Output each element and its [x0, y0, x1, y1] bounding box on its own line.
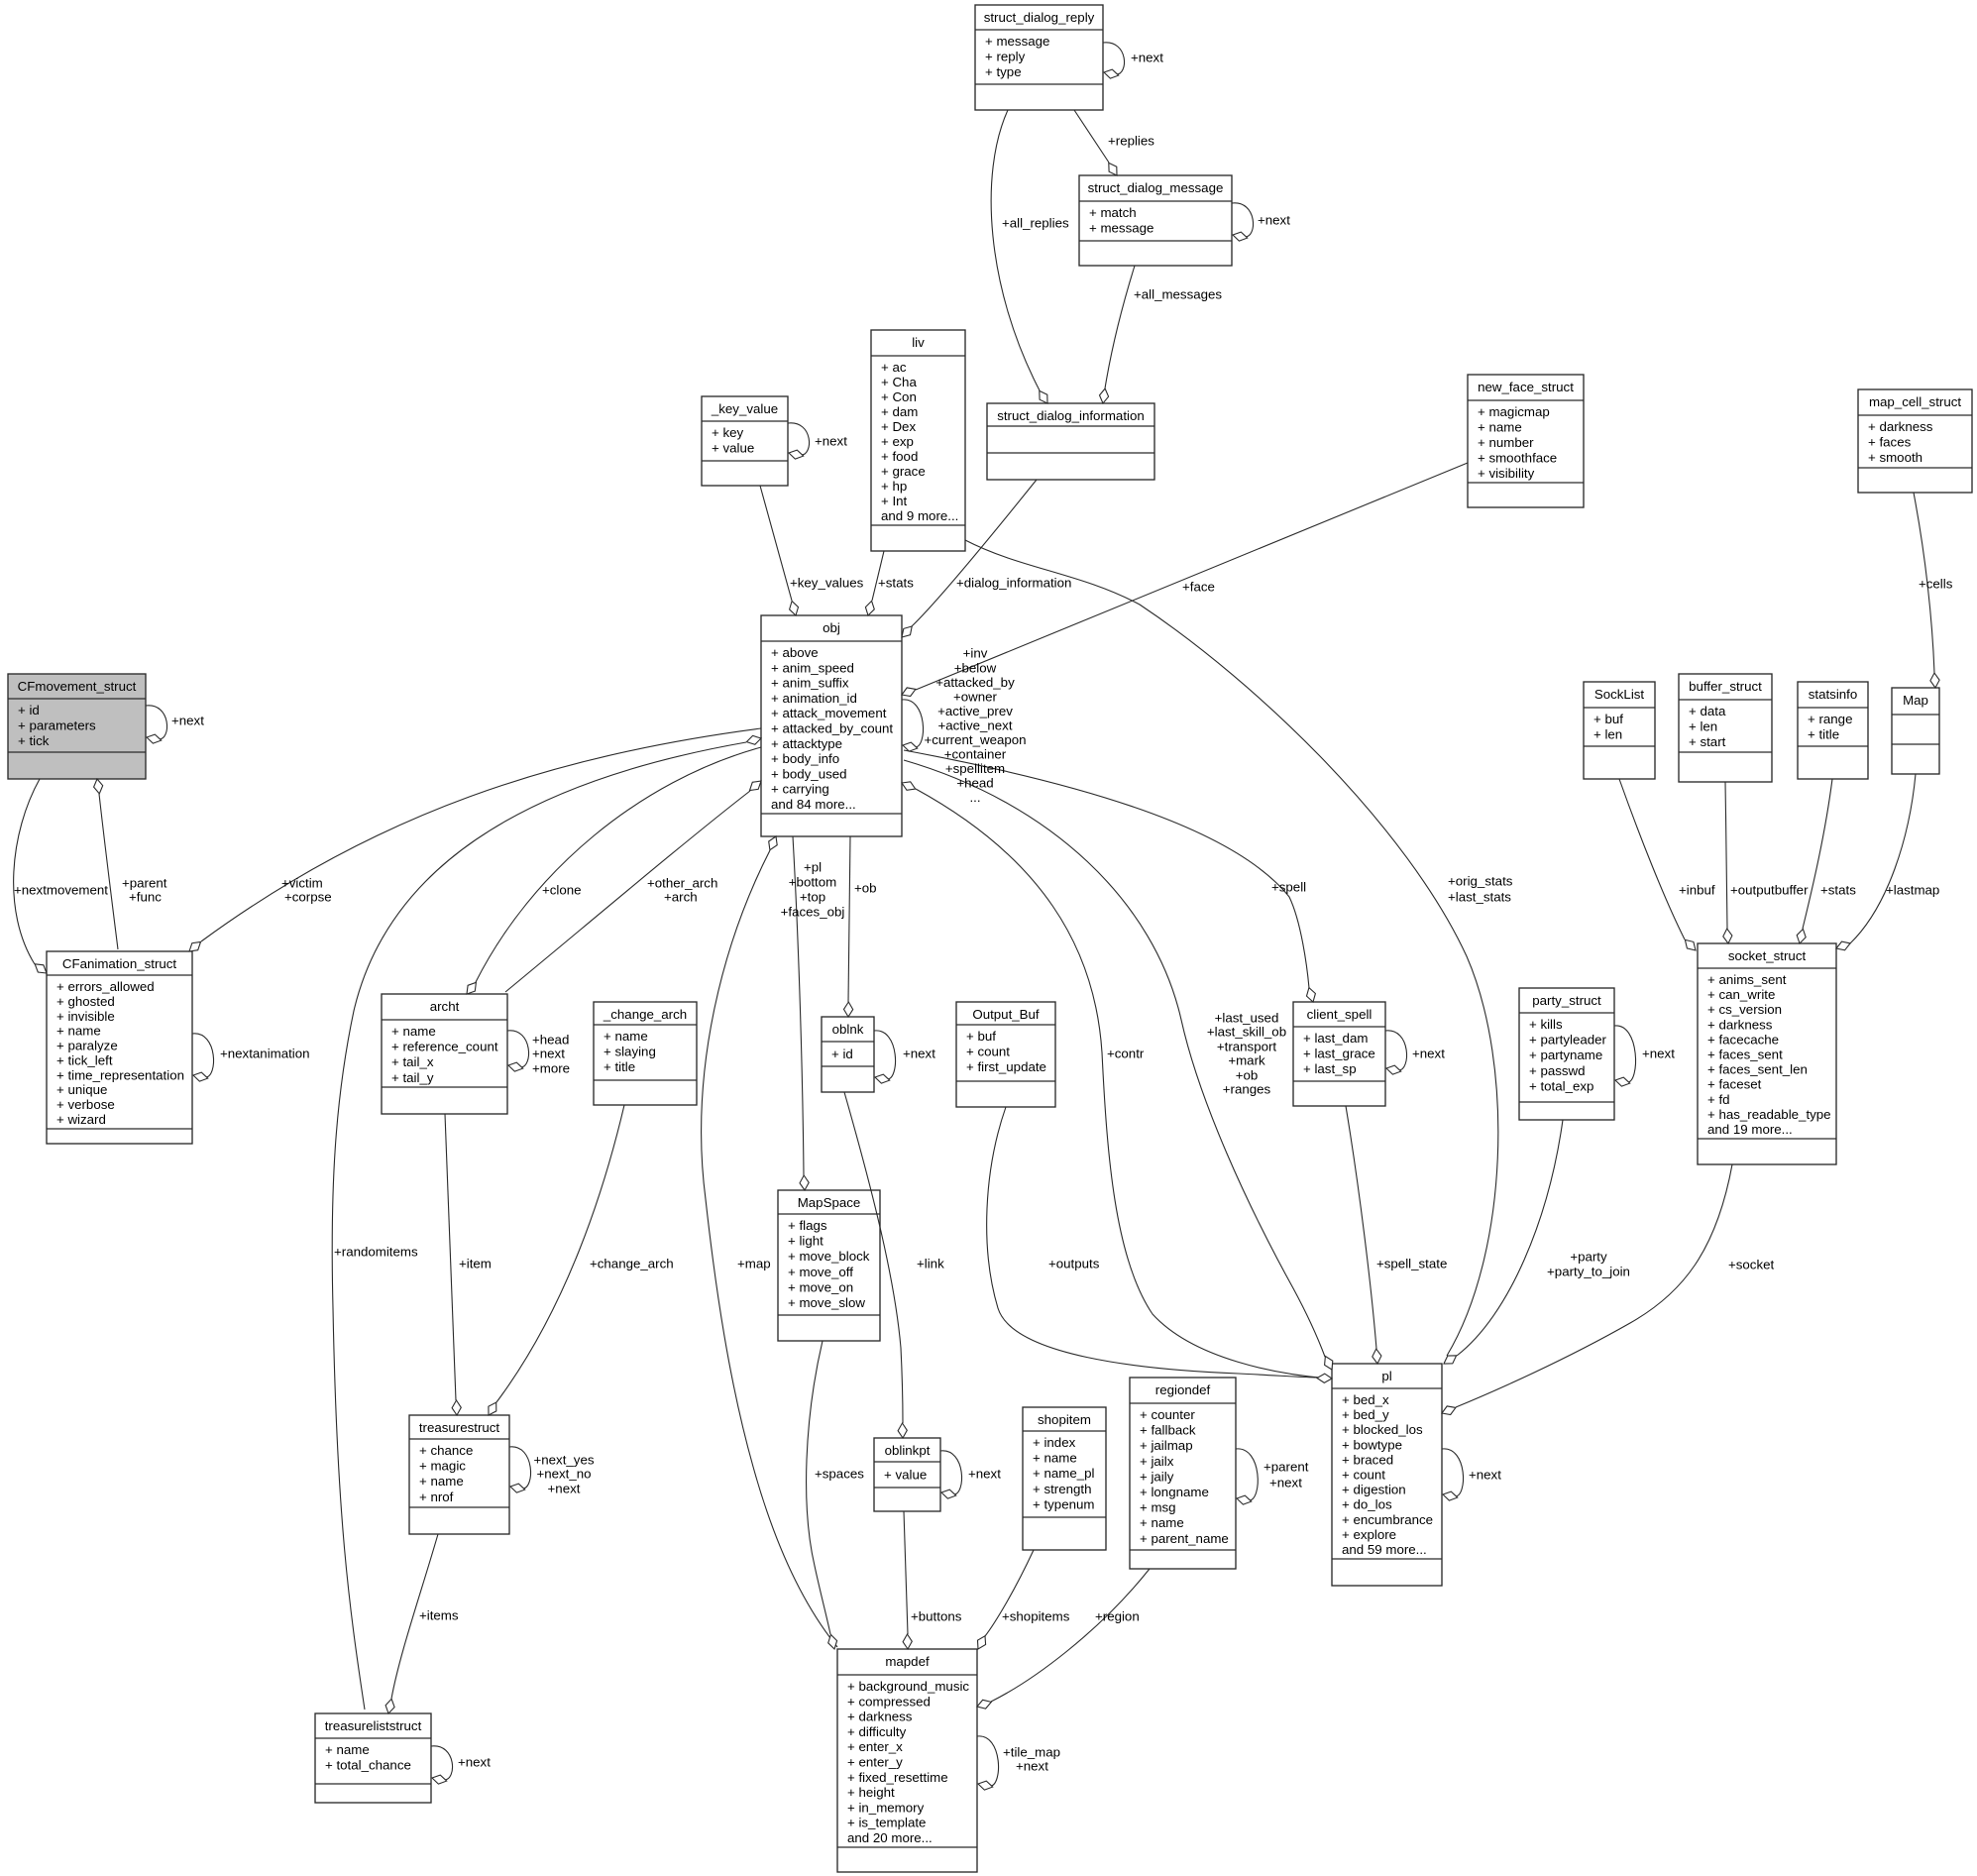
svg-text:+last_skill_ob: +last_skill_ob: [1207, 1025, 1286, 1040]
svg-text:+ unique: + unique: [56, 1082, 107, 1097]
edge liv->pl +orig_stats +last_stats: [965, 540, 1513, 1356]
svg-text:+ attack_movement: + attack_movement: [771, 706, 887, 720]
self loop client_spell +next: [1385, 1031, 1445, 1074]
svg-text:and 20 more...: and 20 more...: [847, 1830, 933, 1845]
svg-text:+ magic: + magic: [419, 1459, 466, 1474]
svg-text:+ count: + count: [966, 1045, 1010, 1059]
class shopitem: [1023, 1407, 1106, 1550]
svg-text:+buttons: +buttons: [911, 1609, 962, 1624]
svg-text:+ food: + food: [881, 449, 918, 464]
svg-text:+ jaily: + jaily: [1140, 1469, 1174, 1484]
svg-text:+lastmap: +lastmap: [1886, 883, 1939, 898]
svg-text:+ wizard: + wizard: [56, 1112, 106, 1127]
svg-text:+ faces_sent: + faces_sent: [1707, 1048, 1783, 1062]
svg-text:struct_dialog_message: struct_dialog_message: [1088, 180, 1224, 195]
svg-text:+ height: + height: [847, 1785, 895, 1800]
svg-text:+party: +party: [1570, 1250, 1607, 1265]
svg-text:+spaces: +spaces: [815, 1467, 864, 1482]
svg-text:+transport: +transport: [1217, 1040, 1277, 1054]
svg-text:+cells: +cells: [1919, 577, 1953, 592]
edge obj->client_spell +spell: [904, 750, 1315, 1002]
svg-text:+ bed_y: + bed_y: [1342, 1407, 1389, 1422]
svg-text:+ slaying: + slaying: [604, 1045, 656, 1059]
svg-text:+spellitem: +spellitem: [945, 761, 1005, 776]
self loop mapdef +tile_map +next: [977, 1736, 1060, 1790]
svg-text:+socket: +socket: [1728, 1258, 1775, 1272]
svg-text:+ name: + name: [419, 1474, 464, 1489]
class archt: [382, 994, 507, 1114]
svg-text:+ ghosted: + ghosted: [56, 994, 115, 1009]
svg-text:+ fallback: + fallback: [1140, 1423, 1196, 1438]
svg-text:+ name: + name: [1140, 1515, 1184, 1530]
svg-text:+ tail_y: + tail_y: [391, 1070, 434, 1085]
svg-text:map_cell_struct: map_cell_struct: [1869, 394, 1961, 409]
svg-text:+ Int: + Int: [881, 494, 908, 508]
svg-text:+ number: + number: [1478, 435, 1534, 450]
svg-text:+next: +next: [1469, 1468, 1501, 1483]
svg-text:+ total_chance: + total_chance: [325, 1758, 411, 1773]
svg-text:+next: +next: [968, 1467, 1001, 1482]
svg-text:+ passwd: + passwd: [1529, 1063, 1586, 1078]
edge MapSpace->obj +pl +bottom +top +faces_obj: [781, 836, 845, 1190]
svg-text:+randomitems: +randomitems: [334, 1245, 418, 1260]
svg-text:+item: +item: [459, 1257, 492, 1271]
edge oblinkpt->mapdef +buttons: [903, 1511, 962, 1649]
self loop archt +head +next +more: [507, 1031, 570, 1076]
svg-text:+ anim_suffix: + anim_suffix: [771, 676, 849, 691]
svg-text:+ anim_speed: + anim_speed: [771, 660, 854, 675]
svg-text:+mark: +mark: [1228, 1053, 1265, 1068]
svg-text:+ blocked_los: + blocked_los: [1342, 1422, 1423, 1437]
svg-text:shopitem: shopitem: [1038, 1412, 1091, 1427]
svg-text:+faces_obj: +faces_obj: [781, 905, 845, 920]
svg-text:+key_values: +key_values: [790, 576, 864, 591]
class socket_struct: [1698, 943, 1836, 1164]
svg-text:and 19 more...: and 19 more...: [1707, 1122, 1793, 1137]
svg-text:+next_no: +next_no: [536, 1467, 591, 1482]
svg-text:+ Con: + Con: [881, 389, 917, 404]
class map_cell_struct: [1858, 389, 1972, 493]
svg-text:+bottom: +bottom: [789, 875, 836, 890]
svg-text:+ name: + name: [1033, 1451, 1077, 1466]
svg-text:and 9 more...: and 9 more...: [881, 508, 958, 523]
svg-text:+next: +next: [171, 714, 204, 728]
edge map_cell_struct->Map +cells: [1914, 493, 1953, 688]
svg-text:+ data: + data: [1689, 704, 1726, 718]
self loop _key_value +next: [788, 423, 847, 459]
svg-text:+ time_representation: + time_representation: [56, 1067, 184, 1082]
edge obj->treasureliststruct +randomitems: [332, 735, 761, 1710]
svg-text:+ paralyze: + paralyze: [56, 1039, 118, 1053]
svg-text:+ bed_x: + bed_x: [1342, 1392, 1389, 1407]
svg-text:+shopitems: +shopitems: [1002, 1609, 1070, 1624]
svg-text:oblnk: oblnk: [832, 1022, 864, 1037]
svg-text:+more: +more: [532, 1061, 570, 1076]
edge new_face_struct->obj +face: [902, 463, 1468, 697]
svg-text:regiondef: regiondef: [1155, 1382, 1211, 1397]
svg-text:+next: +next: [1642, 1047, 1675, 1061]
svg-text:+ visibility: + visibility: [1478, 466, 1535, 481]
svg-text:client_spell: client_spell: [1307, 1007, 1373, 1022]
edge Map->socket_struct +lastmap: [1836, 774, 1939, 950]
svg-text:+ difficulty: + difficulty: [847, 1724, 907, 1739]
svg-text:+ chance: + chance: [419, 1443, 473, 1458]
edge struct_dialog_information->obj +dialog_information: [902, 480, 1071, 637]
svg-text:+ tick: + tick: [18, 733, 50, 748]
svg-text:+ darkness: + darkness: [847, 1710, 913, 1724]
svg-text:+ attacked_by_count: + attacked_by_count: [771, 721, 893, 736]
svg-text:+ len: + len: [1689, 719, 1717, 734]
svg-text:+ longname: + longname: [1140, 1485, 1209, 1499]
svg-text:+ buf: + buf: [966, 1029, 996, 1044]
edge obj->archt +other_arch +arch: [505, 781, 761, 992]
svg-text:+ count: + count: [1342, 1468, 1385, 1483]
edge struct_dialog_reply->struct_dialog_message +replies: [1074, 110, 1154, 175]
class CFanimation_struct: [47, 951, 192, 1144]
self loop regiondef +parent +next: [1236, 1449, 1309, 1504]
svg-text:treasureliststruct: treasureliststruct: [325, 1718, 422, 1733]
svg-text:mapdef: mapdef: [885, 1654, 930, 1669]
svg-text:+next: +next: [548, 1482, 581, 1496]
svg-text:+ name: + name: [56, 1024, 101, 1039]
svg-text:+ jailmap: + jailmap: [1140, 1438, 1193, 1453]
svg-text:+ partyleader: + partyleader: [1529, 1033, 1607, 1048]
svg-text:+inbuf: +inbuf: [1679, 883, 1715, 898]
svg-text:+ title: + title: [1808, 727, 1839, 742]
edge shopitem->mapdef +shopitems: [978, 1550, 1070, 1649]
svg-text:+ parent_name: + parent_name: [1140, 1531, 1229, 1546]
class MapSpace: [778, 1190, 880, 1341]
svg-text:+ob: +ob: [1236, 1068, 1259, 1083]
svg-text:+ id: + id: [18, 703, 40, 717]
svg-text:+ explore: + explore: [1342, 1527, 1396, 1542]
edge _key_value->obj +key_values: [760, 486, 864, 615]
svg-text:+ body_used: + body_used: [771, 766, 847, 781]
svg-text:+ last_grace: + last_grace: [1303, 1047, 1375, 1061]
edge CFmovement_struct->CFanimation_struct +nextmovement: [14, 779, 109, 973]
svg-text:+ fixed_resettime: + fixed_resettime: [847, 1770, 948, 1785]
edge obj->archt +clone: [467, 747, 761, 994]
self loop oblnk +next: [874, 1031, 935, 1083]
self loop obj +inv +below +attacked_by +owner +active_prev +active_next +current_weapon +container +spellitem +head ...: [902, 646, 1027, 806]
svg-text:CFanimation_struct: CFanimation_struct: [62, 956, 177, 971]
svg-text:Output_Buf: Output_Buf: [972, 1007, 1040, 1022]
svg-text:+tile_map: +tile_map: [1003, 1745, 1060, 1760]
svg-text:+ carrying: + carrying: [771, 782, 829, 797]
svg-text:+ob: +ob: [854, 881, 877, 896]
svg-text:treasurestruct: treasurestruct: [419, 1420, 500, 1435]
svg-text:socket_struct: socket_struct: [1728, 948, 1807, 963]
svg-text:+inv: +inv: [963, 646, 988, 661]
svg-text:+next: +next: [1131, 51, 1163, 65]
edge MapSpace->mapdef +spaces: [807, 1341, 865, 1649]
edge pl->obj +last_used +last_skill_ob +transport +mark +ob +ranges: [904, 760, 1333, 1370]
svg-text:+ reference_count: + reference_count: [391, 1040, 498, 1054]
svg-text:+party_to_join: +party_to_join: [1547, 1265, 1630, 1279]
class struct_dialog_information: [987, 403, 1154, 480]
svg-text:+all_replies: +all_replies: [1002, 216, 1069, 231]
svg-text:+parent: +parent: [122, 876, 167, 891]
edge client_spell->pl +spell_state: [1346, 1106, 1447, 1364]
svg-text:+ has_readable_type: + has_readable_type: [1707, 1107, 1831, 1122]
svg-text:+clone: +clone: [542, 883, 582, 898]
svg-text:+ dam: + dam: [881, 404, 918, 419]
svg-text:+ darkness: + darkness: [1707, 1017, 1773, 1032]
svg-text:oblinkpt: oblinkpt: [885, 1443, 931, 1458]
svg-text:+ animation_id: + animation_id: [771, 691, 857, 706]
svg-text:+ enter_y: + enter_y: [847, 1755, 903, 1770]
svg-text:+ move_block: + move_block: [788, 1249, 870, 1264]
svg-text:+ value: + value: [712, 441, 754, 456]
svg-text:buffer_struct: buffer_struct: [1689, 679, 1762, 694]
svg-text:+head: +head: [956, 776, 993, 791]
svg-text:+last_used: +last_used: [1215, 1011, 1279, 1026]
class treasureliststruct: [315, 1713, 431, 1803]
class obj: [761, 615, 902, 836]
svg-text:+parent: +parent: [1263, 1460, 1309, 1475]
svg-text:+ faces: + faces: [1868, 435, 1912, 450]
svg-text:+ ac: + ac: [881, 360, 907, 375]
svg-text:+items: +items: [419, 1608, 459, 1623]
edge treasurestruct->treasureliststruct +items: [385, 1534, 459, 1713]
svg-text:+ hp: + hp: [881, 479, 907, 494]
svg-text:+container: +container: [944, 747, 1007, 762]
svg-text:+ partyname: + partyname: [1529, 1048, 1602, 1062]
svg-text:+ match: + match: [1089, 205, 1137, 220]
svg-text:+arch: +arch: [664, 890, 698, 905]
svg-text:+ Cha: + Cha: [881, 375, 917, 389]
svg-text:+face: +face: [1182, 580, 1215, 595]
svg-text:+next: +next: [815, 434, 847, 449]
svg-text:+ move_on: + move_on: [788, 1279, 853, 1294]
svg-text:+ darkness: + darkness: [1868, 419, 1933, 434]
svg-text:+ enter_x: + enter_x: [847, 1739, 903, 1754]
class party_struct: [1519, 988, 1614, 1120]
svg-text:+ message: + message: [985, 34, 1049, 49]
svg-text:+current_weapon: +current_weapon: [924, 732, 1026, 747]
svg-text:pl: pl: [1381, 1369, 1391, 1383]
svg-text:+spell: +spell: [1271, 880, 1306, 895]
svg-text:+ move_slow: + move_slow: [788, 1295, 865, 1310]
self loop CFmovement_struct +next: [146, 706, 204, 743]
svg-text:+ body_info: + body_info: [771, 751, 839, 766]
class _key_value: [702, 396, 788, 486]
svg-text:+replies: +replies: [1108, 134, 1154, 149]
svg-text:and 59 more...: and 59 more...: [1342, 1542, 1427, 1557]
svg-text:+ cs_version: + cs_version: [1707, 1002, 1782, 1017]
edge archt->treasurestruct +item: [445, 1114, 492, 1415]
edge buffer_struct->socket_struct +outputbuffer: [1723, 782, 1809, 943]
class pl: [1332, 1364, 1442, 1586]
svg-text:+ anims_sent: + anims_sent: [1707, 972, 1787, 987]
svg-text:+ reply: + reply: [985, 50, 1026, 64]
class struct_dialog_reply: [975, 5, 1103, 110]
edge oblinkpt->oblnk +link: [844, 1092, 944, 1438]
svg-text:+ exp: + exp: [881, 434, 914, 449]
svg-text:+ facecache: + facecache: [1707, 1032, 1779, 1047]
edge statsinfo->socket_struct +stats: [1797, 779, 1856, 943]
svg-text:+ light: + light: [788, 1234, 824, 1249]
svg-text:+ range: + range: [1808, 712, 1852, 726]
svg-text:+nextanimation: +nextanimation: [220, 1047, 310, 1061]
edge obj->CFanimation_struct +victim +corpse: [189, 728, 761, 951]
class mapdef: [837, 1649, 977, 1872]
svg-text:MapSpace: MapSpace: [798, 1195, 861, 1210]
svg-text:+ can_write: + can_write: [1707, 987, 1775, 1002]
class Map: [1892, 688, 1939, 774]
svg-text:+ compressed: + compressed: [847, 1694, 931, 1709]
edge struct_dialog_reply->struct_dialog_information +all_replies: [991, 110, 1069, 403]
svg-text:struct_dialog_information: struct_dialog_information: [997, 408, 1145, 423]
svg-text:+ tick_left: + tick_left: [56, 1052, 113, 1067]
svg-text:+stats: +stats: [878, 576, 914, 591]
svg-text:+stats: +stats: [1820, 883, 1856, 898]
svg-text:_key_value: _key_value: [711, 401, 778, 416]
self loop struct_dialog_message +next: [1232, 203, 1290, 241]
svg-text:+ background_music: + background_music: [847, 1679, 969, 1694]
svg-text:+change_arch: +change_arch: [590, 1257, 674, 1271]
svg-text:+ name: + name: [1478, 420, 1522, 435]
edge obj->mapdef +map: [702, 836, 837, 1647]
class statsinfo: [1798, 682, 1868, 779]
svg-text:+nextmovement: +nextmovement: [14, 883, 108, 898]
class CFmovement_struct: [8, 674, 146, 779]
svg-text:+ value: + value: [884, 1468, 927, 1483]
svg-text:+ key: + key: [712, 425, 744, 440]
svg-text:+ flags: + flags: [788, 1218, 827, 1233]
svg-text:+ index: + index: [1033, 1435, 1076, 1450]
edge SockList->socket_struct +inbuf: [1619, 779, 1715, 950]
svg-text:+outputs: +outputs: [1048, 1257, 1100, 1271]
svg-text:+ is_template: + is_template: [847, 1816, 926, 1830]
edge CFmovement_struct->CFanimation_struct +parent +func: [94, 779, 167, 949]
svg-text:+ magicmap: + magicmap: [1478, 404, 1550, 419]
self loop treasureliststruct +next: [431, 1746, 491, 1784]
svg-text:new_face_struct: new_face_struct: [1478, 380, 1574, 394]
svg-text:+victim: +victim: [281, 876, 323, 891]
svg-text:+ faceset: + faceset: [1707, 1077, 1762, 1092]
svg-text:+ invisible: + invisible: [56, 1009, 115, 1024]
svg-text:+ grace: + grace: [881, 464, 926, 479]
svg-text:+ move_off: + move_off: [788, 1265, 853, 1279]
svg-text:+next: +next: [532, 1047, 565, 1061]
edge socket_struct->pl +socket: [1442, 1164, 1775, 1415]
svg-text:+dialog_information: +dialog_information: [956, 576, 1071, 591]
class _change_arch: [594, 1002, 697, 1105]
svg-text:+ start: + start: [1689, 734, 1726, 749]
svg-text:+region: +region: [1095, 1609, 1140, 1624]
edge liv->obj +stats: [865, 551, 914, 615]
class new_face_struct: [1468, 375, 1584, 507]
svg-text:+ errors_allowed: + errors_allowed: [56, 979, 155, 994]
edge regiondef->mapdef +region: [977, 1569, 1150, 1709]
svg-text:+ verbose: + verbose: [56, 1097, 115, 1112]
svg-text:+ in_memory: + in_memory: [847, 1800, 925, 1815]
svg-text:+ last_dam: + last_dam: [1303, 1031, 1368, 1046]
svg-text:+ encumbrance: + encumbrance: [1342, 1512, 1433, 1527]
svg-text:+active_prev: +active_prev: [937, 704, 1013, 718]
svg-text:statsinfo: statsinfo: [1809, 687, 1858, 702]
edge struct_dialog_message->struct_dialog_information +all_messages: [1100, 266, 1223, 403]
svg-text:+ faces_sent_len: + faces_sent_len: [1707, 1062, 1808, 1077]
class struct_dialog_message: [1079, 175, 1232, 266]
self loop party_struct +next: [1614, 1026, 1675, 1086]
svg-text:+next: +next: [1269, 1476, 1302, 1490]
svg-text:+ counter: + counter: [1140, 1407, 1195, 1422]
svg-text:+ name_pl: + name_pl: [1033, 1466, 1095, 1481]
svg-text:+ strength: + strength: [1033, 1482, 1092, 1496]
svg-text:+ message: + message: [1089, 221, 1153, 236]
class client_spell: [1293, 1002, 1385, 1106]
svg-text:+ bowtype: + bowtype: [1342, 1437, 1402, 1452]
svg-text:+next: +next: [1412, 1047, 1445, 1061]
svg-text:+ above: + above: [771, 645, 819, 660]
svg-text:+ first_update: + first_update: [966, 1059, 1046, 1074]
svg-text:+ do_los: + do_los: [1342, 1497, 1392, 1512]
self loop treasurestruct +next_yes +next_no +next: [509, 1447, 595, 1496]
svg-text:+ title: + title: [604, 1059, 635, 1074]
svg-text:+ kills: + kills: [1529, 1017, 1563, 1032]
svg-text:party_struct: party_struct: [1532, 993, 1601, 1008]
class liv: [871, 330, 965, 551]
svg-text:+spell_state: +spell_state: [1376, 1257, 1447, 1271]
svg-text:Map: Map: [1903, 693, 1928, 708]
svg-text:+owner: +owner: [953, 689, 998, 704]
svg-text:+corpse: +corpse: [284, 890, 332, 905]
svg-text:+next: +next: [1016, 1759, 1048, 1774]
edge oblnk->obj +ob: [844, 836, 877, 1017]
svg-text:+last_stats: +last_stats: [1448, 890, 1511, 905]
edge _change_arch->treasurestruct +change_arch: [489, 1105, 674, 1415]
svg-text:+head: +head: [532, 1033, 569, 1048]
svg-text:+outputbuffer: +outputbuffer: [1730, 883, 1809, 898]
svg-text:+ msg: + msg: [1140, 1500, 1176, 1515]
class regiondef: [1130, 1378, 1236, 1569]
self loop oblinkpt +next: [940, 1451, 1001, 1498]
svg-text:+func: +func: [129, 890, 162, 905]
svg-text:+ tail_x: + tail_x: [391, 1054, 434, 1069]
svg-text:+next: +next: [1258, 213, 1290, 228]
svg-text:+ranges: +ranges: [1223, 1082, 1271, 1097]
edge obj->pl +contr: [902, 782, 1330, 1379]
svg-text:+pl: +pl: [804, 860, 822, 875]
edge Output_Buf->pl +outputs: [987, 1107, 1332, 1382]
class treasurestruct: [409, 1415, 509, 1534]
svg-text:and 84 more...: and 84 more...: [771, 797, 856, 812]
svg-text:...: ...: [969, 790, 980, 805]
svg-text:+ Dex: + Dex: [881, 419, 916, 434]
svg-text:+ id: + id: [831, 1047, 853, 1061]
svg-text:+ jailx: + jailx: [1140, 1454, 1174, 1469]
svg-text:_change_arch: _change_arch: [603, 1007, 687, 1022]
svg-text:+ buf: + buf: [1593, 712, 1623, 726]
class SockList: [1584, 682, 1655, 779]
svg-text:SockList: SockList: [1594, 687, 1645, 702]
svg-text:+ total_exp: + total_exp: [1529, 1078, 1593, 1093]
svg-text:+attacked_by: +attacked_by: [935, 675, 1015, 690]
svg-text:+ name: + name: [604, 1029, 648, 1044]
svg-text:+ nrof: + nrof: [419, 1490, 454, 1504]
edge party_struct->pl +party +party_to_join: [1444, 1120, 1630, 1364]
svg-text:+ len: + len: [1593, 727, 1622, 742]
svg-text:+contr: +contr: [1107, 1047, 1145, 1061]
svg-text:+other_arch: +other_arch: [647, 876, 717, 891]
svg-text:+active_next: +active_next: [937, 717, 1012, 732]
svg-text:obj: obj: [823, 620, 840, 635]
svg-text:+orig_stats: +orig_stats: [1448, 874, 1513, 889]
class oblinkpt: [874, 1438, 940, 1511]
class buffer_struct: [1679, 674, 1772, 782]
